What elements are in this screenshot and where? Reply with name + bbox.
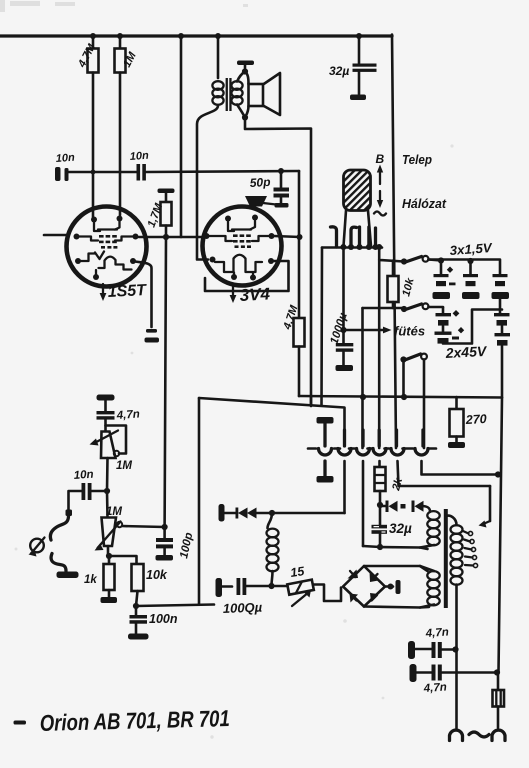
capacitor 32u top	[329, 36, 377, 100]
wire plug column B down left	[320, 248, 323, 406]
node bus-transformer	[215, 33, 221, 39]
wire B+ rail	[299, 396, 502, 398]
node bus-1M	[117, 33, 123, 39]
svg-text:50p: 50p	[249, 175, 270, 190]
wire right main drop	[499, 398, 503, 673]
mains tap selector arrow	[479, 486, 491, 528]
label B with arrow up (Telep)	[376, 152, 385, 184]
gang dashed line	[308, 447, 436, 450]
contact cup5	[391, 430, 490, 486]
potentiometer 1M tone	[90, 426, 133, 492]
svg-text:1S5T: 1S5T	[107, 282, 147, 301]
battery 45V left	[435, 308, 503, 344]
battery cell3 1,5V	[492, 274, 510, 299]
bridge rectifier	[343, 566, 385, 607]
wire socket bus row	[322, 246, 382, 249]
wire heater return left vertical	[198, 398, 201, 604]
node sec-4,7n	[452, 646, 458, 652]
connector plug battery/mains (hatched)	[344, 170, 372, 246]
capacitor 100n	[128, 606, 178, 640]
arrow 1S5T filament	[100, 284, 107, 301]
svg-text:1M: 1M	[116, 460, 132, 472]
mains transformer T2	[420, 509, 448, 608]
svg-text:1M: 1M	[106, 506, 122, 518]
node 50p tap	[278, 168, 284, 174]
node 10k bottom	[133, 603, 139, 609]
wire 1S5T anode to 17M node	[139, 236, 203, 239]
tube 1S5T internal electrodes	[79, 221, 133, 277]
capacitor 10n left terminal	[55, 152, 137, 181]
svg-text:100Qµ: 100Qµ	[223, 600, 263, 616]
fuse	[493, 673, 505, 728]
capacitor 100p	[156, 527, 196, 561]
resistor 270	[448, 397, 487, 448]
transformer secondary with taps	[447, 516, 478, 728]
resistor 4,7M screen	[281, 303, 304, 396]
battery cell2 1,5V	[462, 274, 480, 299]
wire anode feed primary bottom to 3V4 plate	[197, 106, 218, 260]
svg-text:32µ: 32µ	[329, 64, 349, 78]
svg-text:4,7n: 4,7n	[115, 408, 140, 422]
svg-text:100n: 100n	[149, 612, 178, 626]
wire cup3 bottom to transformer primary	[363, 546, 428, 549]
node rail-lever3	[401, 394, 407, 400]
contact cup6	[415, 430, 498, 475]
wire 3V4 bottom loop	[205, 261, 289, 291]
resistor 1M	[115, 36, 140, 215]
socket pin hooks row	[331, 227, 376, 247]
node rail-cup3	[360, 394, 366, 400]
tube 1S5T pins	[74, 216, 139, 281]
node speaker bottom	[242, 114, 248, 120]
resistor 10k	[388, 261, 417, 309]
capacitor 10n series	[129, 150, 299, 181]
arrow 3V4 filament	[230, 286, 237, 303]
battery 3x1,5V chain	[429, 240, 501, 274]
node speaker top	[242, 68, 248, 74]
svg-text:4,7n: 4,7n	[422, 681, 447, 695]
svg-text:10n: 10n	[129, 150, 149, 163]
node mains-4,7n	[494, 669, 500, 675]
tube 3V4 pins	[204, 215, 275, 281]
svg-text:32µ: 32µ	[389, 521, 412, 536]
tube 1S5T envelope	[67, 207, 147, 287]
contact cup2	[338, 430, 351, 513]
svg-text:10k: 10k	[146, 568, 168, 582]
battery 45V right	[458, 299, 510, 397]
tube 3V4 internal electrodes	[209, 221, 269, 278]
diode pair to rectifier coil	[380, 501, 430, 513]
wire 1S5T cathode stub to chassis cap	[133, 261, 159, 343]
wire jog to B rail	[310, 397, 313, 406]
wire speaker return down right	[245, 118, 311, 407]
tube 3V4 envelope	[203, 207, 282, 286]
pickup connector	[29, 538, 45, 557]
svg-text:3x1,5V: 3x1,5V	[449, 240, 493, 258]
svg-text:10n: 10n	[73, 469, 94, 482]
node bus-32u	[356, 33, 362, 39]
wire AF line from 17M node down to volume pot	[165, 237, 166, 527]
diode detector double	[225, 508, 345, 519]
svg-text:Telep: Telep	[402, 153, 432, 167]
nodes socket row	[340, 244, 382, 250]
svg-text:fütés: fütés	[394, 324, 425, 339]
svg-text:2x45V: 2x45V	[444, 343, 488, 361]
node diode tap	[377, 502, 383, 508]
potentiometer 1M volume	[95, 491, 165, 556]
svg-text:4,7n: 4,7n	[424, 626, 449, 640]
contact cup3	[357, 430, 370, 546]
wire 3V4 right pin to screen line	[274, 236, 300, 237]
wire 1S5T grid stub left	[44, 234, 67, 237]
resistor 1k	[84, 556, 117, 603]
wire bottom heater run	[136, 605, 214, 607]
resistor 4,7M	[76, 36, 99, 219]
caption Orion AB 701, BR 701	[14, 705, 231, 736]
capacitor 4,7n lower	[410, 664, 498, 695]
switch lever S1a	[401, 256, 441, 265]
svg-text:B: B	[376, 152, 385, 166]
jack contact lower	[51, 554, 78, 579]
svg-text:270: 270	[464, 412, 487, 427]
capacitor 32u lower	[372, 521, 413, 547]
wire bridge right cap	[385, 580, 401, 594]
tube 3V4 grid dots	[233, 234, 251, 248]
inductor choke	[267, 513, 279, 586]
node 10n-pot	[104, 488, 110, 494]
switch lever S1c	[400, 354, 427, 448]
node 2k bottom rail	[377, 544, 383, 550]
battery cell1 1,5V	[433, 267, 456, 300]
wire screen line down right of tubes	[298, 171, 301, 318]
resistor 10k cathode	[109, 556, 168, 606]
node 4.7M-10n	[91, 170, 96, 175]
capacitor 1000u electrolytic (100Qu)	[216, 578, 273, 616]
node volume wiper	[162, 524, 168, 530]
mains plug contacts	[450, 730, 506, 740]
wire cup4 column	[378, 260, 381, 448]
terminal chassis top	[97, 395, 115, 401]
output transformer T1	[212, 36, 245, 118]
node choke tap	[269, 510, 275, 516]
wire bridge top to transformer	[364, 566, 428, 571]
wire top supply bus	[0, 34, 392, 37]
resistor 15 adjustable	[272, 564, 342, 606]
resistor 1,7M	[146, 189, 175, 238]
switch lever S1b	[401, 303, 443, 312]
speaker LS	[245, 72, 280, 118]
wire 10k bottom to lever2 and cup3 column	[363, 307, 405, 310]
wire lever1 feed	[379, 247, 403, 262]
capacitor 4,7n tone	[97, 401, 141, 432]
chassis terminal above transformer	[237, 61, 254, 72]
svg-text:1k: 1k	[84, 574, 97, 586]
svg-text:Orion AB 701, BR 701: Orion AB 701, BR 701	[39, 705, 230, 736]
node 17M junction	[163, 234, 169, 240]
svg-text:3V4: 3V4	[239, 284, 271, 305]
terminal detector input	[219, 504, 225, 522]
node bus-4.7M	[90, 33, 96, 39]
jack contact upper	[50, 516, 68, 540]
svg-text:Hálózat: Hálózat	[402, 197, 447, 211]
capacitor 1000u filter	[328, 247, 353, 371]
wire bridge bottom to transformer	[364, 607, 429, 608]
node coil bottom	[268, 583, 274, 589]
svg-text:10n: 10n	[55, 152, 75, 165]
capacitor 4,7n upper	[408, 626, 455, 659]
node pot2 bottom	[106, 553, 112, 559]
contact cup1 with terminals	[317, 417, 334, 483]
arrow futes heater tap	[344, 324, 426, 339]
capacitor 50p	[249, 171, 289, 208]
tube 1S5T grid dots	[99, 235, 117, 249]
capacitor 10n input	[66, 469, 108, 516]
resistor 2k	[375, 467, 406, 525]
node bus-182	[178, 33, 184, 39]
wire bus right corner down to cup5	[392, 35, 396, 449]
wire heater line to cup2	[199, 398, 345, 446]
wire 182 from bus down to grid line	[180, 36, 183, 237]
node cup6 mains join	[495, 471, 501, 477]
contact cup4	[373, 430, 386, 467]
grid cap blob 3V4	[245, 196, 276, 207]
label ~ with arrow down (Halozat)	[374, 191, 386, 216]
